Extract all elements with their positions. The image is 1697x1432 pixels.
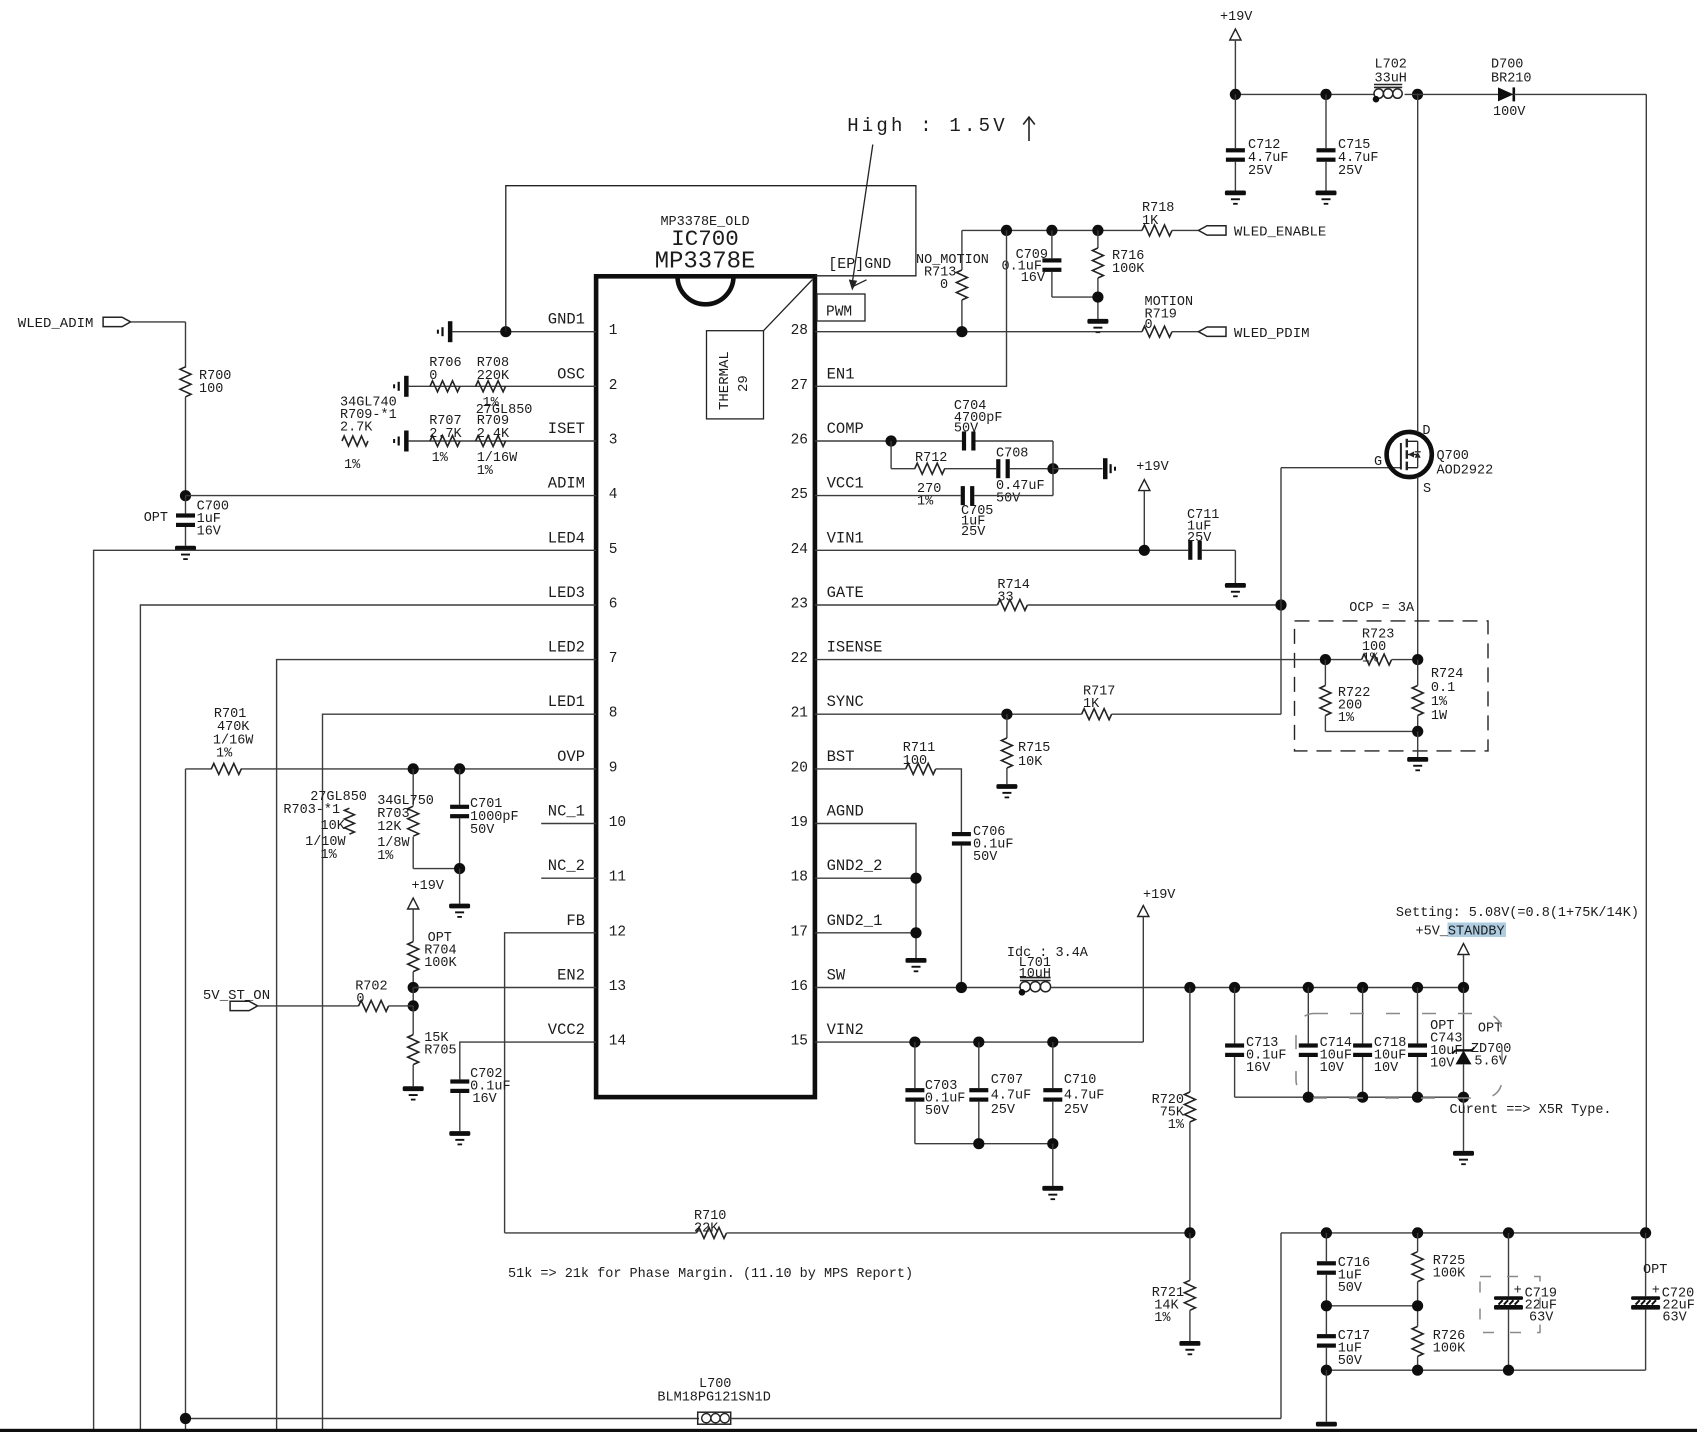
resistor R703 12K 1/8W 1% (34GL750) <box>377 769 434 869</box>
node OVP-R703 junction <box>408 763 419 774</box>
svg-text:18: 18 <box>791 870 808 886</box>
svg-text:7: 7 <box>609 651 618 667</box>
capacitor C743 10uF 10V OPT <box>1408 988 1463 1098</box>
svg-text:+: + <box>1652 1284 1660 1299</box>
wire LED4 pin 5 <box>94 550 596 1430</box>
svg-text:PWM: PWM <box>826 305 852 321</box>
svg-text:2.7K: 2.7K <box>340 421 373 436</box>
resistor R705 15K <box>408 1006 457 1086</box>
svg-text:4.7uF: 4.7uF <box>991 1089 1032 1104</box>
node C718 bottom <box>1357 1092 1368 1103</box>
node compensation right junction <box>1047 463 1058 474</box>
svg-text:SW: SW <box>827 967 846 985</box>
svg-text:C708: C708 <box>996 447 1028 462</box>
svg-text:33: 33 <box>997 591 1013 606</box>
svg-text:16V: 16V <box>197 525 222 540</box>
ground below AGND chain <box>906 958 927 963</box>
svg-text:NC_1: NC_1 <box>548 803 585 821</box>
svg-text:21: 21 <box>791 706 808 722</box>
svg-text:10V: 10V <box>1374 1061 1399 1076</box>
wire 5V_ST_ON to R702 <box>258 1005 359 1007</box>
wire to ground <box>459 869 461 904</box>
EP pad wire and [EP]GND outline <box>506 186 916 332</box>
svg-text:1%: 1% <box>321 848 338 863</box>
svg-text:NC_2: NC_2 <box>548 857 585 875</box>
node C717 bottom <box>1321 1365 1332 1376</box>
svg-text:29: 29 <box>736 375 752 392</box>
svg-text:22K: 22K <box>694 1222 719 1237</box>
svg-text:OCP = 3A: OCP = 3A <box>1349 601 1415 616</box>
thermal pad box THERMAL 29 <box>707 280 813 419</box>
svg-text:100V: 100V <box>1493 105 1526 120</box>
ground bar symbol at OSC network <box>404 376 409 397</box>
svg-text:14: 14 <box>609 1034 626 1050</box>
svg-text:COMP: COMP <box>827 420 864 438</box>
svg-text:16V: 16V <box>1246 1061 1271 1076</box>
capacitor C713 0.1uF 16V <box>1225 988 1286 1098</box>
node rail C715 <box>1320 89 1331 100</box>
pin stub NC_1 <box>541 823 596 825</box>
wire COMP branch down <box>890 441 892 469</box>
capacitor C707 4.7uF 25V <box>969 1042 1031 1144</box>
svg-text:0: 0 <box>940 278 948 293</box>
wire OSC row <box>409 385 596 387</box>
resistor R723 100 1% <box>1362 628 1395 667</box>
node rail C718 <box>1357 982 1368 993</box>
resistor R701 470K 1/16W 1% <box>211 707 254 774</box>
svg-text:51k => 21k for Phase Margin. (: 51k => 21k for Phase Margin. (11.10 by M… <box>508 1267 913 1282</box>
node ADIM junction <box>180 490 191 501</box>
wire to ground <box>1052 1144 1054 1186</box>
ground below R716 <box>1087 319 1108 324</box>
capacitor C703 0.1uF 50V <box>905 1042 965 1144</box>
svg-text:25V: 25V <box>1338 164 1363 179</box>
svg-text:C710: C710 <box>1064 1073 1096 1088</box>
ground below ZD700 <box>1453 1151 1474 1156</box>
electrolytic capacitor C720 22uF 63V OPT <box>1631 1233 1695 1370</box>
svg-text:LED1: LED1 <box>548 693 585 711</box>
wire gate to Q700 <box>1281 467 1401 469</box>
wire L700 row from OVP vertical <box>186 1418 700 1420</box>
svg-text:2.4K: 2.4K <box>477 427 510 442</box>
port 5V_ST_ON <box>203 988 270 1011</box>
wire output sense row <box>1281 1232 1646 1234</box>
wire R703 bottom to C701 bottom <box>413 868 459 870</box>
svg-text:100K: 100K <box>1433 1342 1466 1357</box>
node rail C713 <box>1229 982 1240 993</box>
svg-text:LED2: LED2 <box>548 639 585 657</box>
svg-text:GND2_2: GND2_2 <box>827 857 883 875</box>
svg-text:1%: 1% <box>432 451 449 466</box>
node ZD700 bottom <box>1458 1092 1469 1103</box>
wire WLED_ENABLE row <box>962 229 1142 231</box>
wire BST pin 20 <box>815 768 906 770</box>
wire R718 to port <box>1172 229 1199 231</box>
svg-text:23: 23 <box>791 597 808 613</box>
svg-text:1%: 1% <box>477 464 494 479</box>
resistor R708 220K 1% <box>476 356 533 418</box>
svg-text:1%: 1% <box>1431 695 1448 710</box>
wire OVP sense vertical to L700 row <box>185 769 187 1430</box>
svg-text:GND2_1: GND2_1 <box>827 912 883 930</box>
node SW C706 <box>956 982 967 993</box>
svg-text:1K: 1K <box>1083 697 1100 712</box>
svg-text:ADIM: ADIM <box>548 475 585 493</box>
svg-text:D: D <box>1422 424 1430 439</box>
wire R722 bottom to R724 bottom <box>1325 730 1417 732</box>
node 5V_ST_ON junction <box>408 1000 419 1011</box>
svg-text:BLM18PG121SN1D: BLM18PG121SN1D <box>657 1391 770 1406</box>
wire EN2 to 5V_ST_ON node <box>412 988 414 1006</box>
node row C716 <box>1321 1227 1332 1238</box>
svg-text:9: 9 <box>609 760 618 776</box>
wire C704 to right corner <box>976 440 1054 442</box>
node C710 bottom <box>1047 1138 1058 1149</box>
svg-text:10V: 10V <box>1430 1057 1455 1072</box>
resistor R710 22K <box>694 1209 727 1238</box>
wire R714 to gate node <box>1027 604 1281 606</box>
capacitor C700 1uF 16V (OPT) <box>144 496 229 546</box>
port WLED_ENABLE <box>1199 225 1327 241</box>
electrolytic capacitor C719 22uF 63V <box>1480 1233 1557 1370</box>
wire VIN1 pin 24 <box>815 549 1188 551</box>
svg-text:ISENSE: ISENSE <box>827 639 883 657</box>
svg-text:20: 20 <box>791 760 808 776</box>
wire ISENSE pin 22 <box>815 659 1362 661</box>
resistor R717 1K <box>1082 685 1116 720</box>
ground below C702 <box>449 1131 470 1136</box>
svg-text:1%: 1% <box>344 458 361 473</box>
wire ADIM pin 4 <box>186 495 597 497</box>
svg-text:100K: 100K <box>1433 1267 1466 1282</box>
svg-text:WLED_PDIM: WLED_PDIM <box>1234 326 1310 342</box>
svg-text:GATE: GATE <box>827 584 864 602</box>
port WLED_PDIM <box>1199 326 1310 342</box>
svg-text:High : 1.5V: High : 1.5V <box>847 115 1008 137</box>
node rail C712 <box>1230 89 1241 100</box>
svg-text:1K: 1K <box>1142 214 1159 229</box>
wire R723 to source node <box>1392 659 1418 661</box>
svg-text:1%: 1% <box>1154 1311 1171 1326</box>
svg-text:16: 16 <box>791 979 808 995</box>
svg-text:SYNC: SYNC <box>827 693 864 711</box>
svg-text:R715: R715 <box>1018 741 1050 756</box>
wire GND1 to bar <box>452 331 596 333</box>
node C743 bottom <box>1412 1092 1423 1103</box>
wire Q700 source down <box>1417 477 1419 660</box>
resistor R713 0 NO_MOTION <box>916 230 989 331</box>
wire LED1 pin 8 <box>323 714 597 1430</box>
svg-text:22: 22 <box>791 651 808 667</box>
wire COMP pin 26 <box>815 440 962 442</box>
ground below C701 <box>449 904 470 909</box>
wire D700 to right edge rail <box>1514 93 1647 95</box>
svg-text:10K: 10K <box>321 819 346 834</box>
wire EN1 pin 27 <box>815 230 1007 386</box>
node C709 top <box>1046 225 1057 236</box>
svg-text:EN1: EN1 <box>827 365 855 383</box>
resistor R704 100K OPT <box>408 931 458 988</box>
node AGND GND2_2 <box>910 873 921 884</box>
svg-text:27: 27 <box>791 378 808 394</box>
svg-text:1: 1 <box>609 323 618 339</box>
node row C719 <box>1503 1227 1514 1238</box>
wire GATE pin 23 <box>815 604 998 606</box>
svg-text:MP3378E: MP3378E <box>655 249 756 276</box>
power +19V top rail <box>1220 10 1253 94</box>
svg-text:50V: 50V <box>1338 1281 1363 1296</box>
node OVP/L700 junction <box>180 1413 191 1424</box>
capacitor C716 1uF 50V <box>1317 1233 1370 1306</box>
wire SW pin 16 <box>815 987 1020 989</box>
node OVP-C701 junction <box>454 763 465 774</box>
svg-text:C707: C707 <box>991 1073 1023 1088</box>
svg-text:1%: 1% <box>377 849 394 864</box>
wire WLED_ADIM to R700 <box>131 321 186 323</box>
net label +5V_STANDBY with highlight <box>1416 923 1507 940</box>
svg-text:16V: 16V <box>1021 271 1046 286</box>
svg-text:100K: 100K <box>424 956 457 971</box>
svg-text:25V: 25V <box>1187 531 1212 546</box>
svg-text:100: 100 <box>199 382 223 397</box>
node R703/C701 junction <box>454 863 465 874</box>
wire R710 FB row <box>505 1232 697 1234</box>
svg-text:+19V: +19V <box>1220 10 1253 25</box>
svg-text:+19V: +19V <box>1136 460 1169 475</box>
alternate resistor R703-*1 10K 1/10W 1% (27GL850) floating symbol <box>283 790 367 863</box>
svg-text:OVP: OVP <box>557 748 585 766</box>
svg-text:S: S <box>1423 482 1431 497</box>
capacitor C710 4.7uF 25V <box>1043 1042 1104 1144</box>
capacitor C705 1uF 25V <box>961 486 1053 540</box>
IC pin labels and numbers <box>548 311 883 1050</box>
svg-text:BST: BST <box>827 748 855 766</box>
svg-text:25V: 25V <box>991 1103 1016 1118</box>
port WLED_ADIM <box>18 316 131 332</box>
ground below input caps <box>1042 1186 1063 1191</box>
svg-text:R712: R712 <box>915 451 947 466</box>
resistor R724 0.1 1% 1W <box>1412 660 1463 732</box>
resistor R711 100 <box>903 741 936 774</box>
node source/R724 <box>1412 654 1423 665</box>
svg-text:G: G <box>1374 455 1382 470</box>
resistor R725 100K <box>1412 1233 1466 1306</box>
ground below C715 <box>1316 191 1337 196</box>
wire SYNC pin 21 <box>815 713 1082 715</box>
resistor R707 2.7K 1% <box>429 414 462 466</box>
capacitor C718 10uF 10V <box>1353 988 1406 1098</box>
svg-text:OPT: OPT <box>1478 1022 1502 1037</box>
wire GND2_2 pin 18 <box>815 877 916 879</box>
svg-text:17: 17 <box>791 924 808 940</box>
node rail R720 <box>1184 982 1195 993</box>
wire gate vertical <box>1280 468 1282 715</box>
dashed OPT group outline <box>1296 1014 1502 1099</box>
IC IC700 MP3378E body <box>596 276 815 1097</box>
node row C720 right rail <box>1640 1227 1651 1238</box>
svg-text:25V: 25V <box>961 525 986 540</box>
node R724 bottom <box>1412 726 1423 737</box>
inductor L702 33uH <box>1373 58 1407 103</box>
svg-text:10V: 10V <box>1320 1061 1345 1076</box>
resistor R726 100K <box>1412 1306 1466 1370</box>
node C716/C717 mid <box>1321 1300 1332 1311</box>
wire OVP row pin 9 <box>241 768 596 770</box>
svg-text:OSC: OSC <box>557 365 585 383</box>
node C714 bottom <box>1303 1092 1314 1103</box>
wire +19V rail <box>1235 93 1374 95</box>
power +19V above R704 <box>408 879 445 942</box>
node ISENSE R722 <box>1320 654 1331 665</box>
svg-text:R705: R705 <box>424 1044 456 1059</box>
svg-text:8: 8 <box>609 706 618 722</box>
node R726 bottom <box>1412 1365 1423 1376</box>
wire Q700 drain up <box>1417 94 1419 432</box>
svg-text:Setting: 5.08V(=0.8(1+75K/14K): Setting: 5.08V(=0.8(1+75K/14K) <box>1396 906 1639 921</box>
node rail C743 <box>1412 982 1423 993</box>
resistor R715 10K <box>1001 714 1050 784</box>
svg-text:63V: 63V <box>1662 1311 1687 1326</box>
ground below C711 <box>1225 583 1246 588</box>
resistor R716 100K <box>1092 230 1145 319</box>
IC700 title text <box>655 215 756 276</box>
svg-text:50V: 50V <box>996 492 1021 507</box>
svg-text:D700: D700 <box>1491 58 1523 73</box>
svg-text:+19V: +19V <box>1143 888 1176 903</box>
capacitor C711 1uF 25V <box>1187 508 1235 583</box>
svg-text:[EP]GND: [EP]GND <box>828 256 891 273</box>
node VIN2 C710 <box>1047 1037 1058 1048</box>
inductor L701 10uH Idc 3.4A <box>1007 946 1089 996</box>
svg-text:VCC2: VCC2 <box>548 1021 585 1039</box>
power +19V at VIN1 <box>1136 460 1169 550</box>
svg-text:220K: 220K <box>477 369 510 384</box>
wire L700 to output node <box>729 1418 1281 1420</box>
svg-text:0: 0 <box>429 369 437 384</box>
resistor R712 270 1% <box>891 451 947 510</box>
wire LED2 pin 7 <box>277 660 596 1430</box>
wire R717 to gate vertical <box>1112 713 1282 715</box>
wire R702 to junction <box>389 1005 414 1007</box>
capacitor C715 4.7uF 25V <box>1317 94 1379 190</box>
annotation High : 1.5V with arrow <box>847 115 1035 291</box>
svg-text:BR210: BR210 <box>1491 72 1532 87</box>
resistor R721 14K 1% <box>1152 1233 1196 1341</box>
svg-text:2.7K: 2.7K <box>429 427 462 442</box>
alternate resistor R709-*1 2.7K (34GL740) floating symbol <box>340 396 397 474</box>
wire AGND pin 19 <box>815 824 916 959</box>
ground bar symbol right of COMP network <box>1103 458 1108 479</box>
svg-text:2: 2 <box>609 378 618 394</box>
svg-text:ISET: ISET <box>548 420 585 438</box>
svg-text:10: 10 <box>609 815 626 831</box>
node EN2 junction <box>408 982 419 993</box>
svg-text:WLED_ENABLE: WLED_ENABLE <box>1234 225 1326 241</box>
svg-text:VCC1: VCC1 <box>827 475 864 493</box>
resistor R714 33 <box>997 578 1029 611</box>
pin 28 PWM box <box>817 294 865 321</box>
resistor R709 2.4K 1/16W 1% <box>476 414 519 479</box>
wire VCC1 pin 25 <box>815 495 961 497</box>
svg-text:R703-*1: R703-*1 <box>283 803 340 818</box>
resistor R719 0 MOTION <box>1142 295 1193 337</box>
svg-text:+: + <box>1514 1284 1522 1299</box>
svg-text:25: 25 <box>791 487 808 503</box>
svg-text:19: 19 <box>791 815 808 831</box>
wire GND2_1 pin 17 <box>815 932 916 934</box>
svg-text:15: 15 <box>791 1034 808 1050</box>
wire to ground <box>1463 1097 1465 1151</box>
node VIN2 C703 <box>909 1037 920 1048</box>
wire R719 to port <box>1172 331 1199 333</box>
capacitor C717 1uF 50V <box>1317 1306 1370 1370</box>
node GND1 junction <box>500 326 511 337</box>
ground below R724 <box>1407 757 1428 762</box>
wire PWM pin 28 row <box>815 331 1142 333</box>
svg-text:12K: 12K <box>377 820 402 835</box>
svg-text:THERMAL: THERMAL <box>717 351 733 410</box>
svg-text:28: 28 <box>791 323 808 339</box>
node COMP junction <box>886 435 897 446</box>
svg-text:13: 13 <box>609 979 626 995</box>
power +5V_STANDBY arrow <box>1458 944 1469 988</box>
svg-text:63V: 63V <box>1529 1311 1554 1326</box>
svg-text:GND1: GND1 <box>548 311 585 329</box>
ground bar symbol at GND1 pin <box>448 321 453 342</box>
wire output cap ground row <box>1235 1096 1464 1098</box>
node L702 out <box>1412 89 1423 100</box>
svg-text:LED4: LED4 <box>548 529 585 547</box>
node VIN1 +19V junction <box>1139 545 1150 556</box>
node C707 bottom <box>973 1138 984 1149</box>
node C709/R716 bottom <box>1092 292 1103 303</box>
svg-text:4: 4 <box>609 487 618 503</box>
svg-text:16V: 16V <box>472 1092 497 1107</box>
svg-text:VIN2: VIN2 <box>827 1021 864 1039</box>
resistor R722 200 1% <box>1320 660 1370 732</box>
svg-text:100K: 100K <box>1112 262 1145 277</box>
svg-text:1%: 1% <box>216 747 233 762</box>
svg-text:1%: 1% <box>917 495 934 510</box>
wire bottom edge net <box>0 1429 1697 1432</box>
wire L702 to D700 <box>1405 93 1498 95</box>
node SYNC R715 <box>1001 709 1012 720</box>
svg-text:50V: 50V <box>925 1104 950 1119</box>
wire FB pin 12 down to R710 row <box>505 933 596 1233</box>
ground below C700 <box>175 546 196 551</box>
capacitor C714 10uF 10V <box>1299 988 1352 1098</box>
ground below R705 <box>403 1086 424 1091</box>
svg-text:0.1: 0.1 <box>1431 681 1455 696</box>
svg-text:+19V: +19V <box>412 879 445 894</box>
resistor R700 100 <box>180 367 231 397</box>
ground below R715 <box>996 784 1017 789</box>
node row R725 <box>1412 1227 1423 1238</box>
svg-text:11: 11 <box>609 870 626 886</box>
svg-text:50V: 50V <box>470 823 495 838</box>
svg-text:6: 6 <box>609 597 618 613</box>
resistor R706 0 <box>429 356 461 392</box>
capacitor C712 4.7uF 25V <box>1226 94 1289 190</box>
node rail C714 <box>1303 982 1314 993</box>
svg-text:OPT: OPT <box>1643 1263 1667 1278</box>
wire EN2 pin 13 <box>413 987 596 989</box>
svg-text:Curent ==> X5R Type.: Curent ==> X5R Type. <box>1450 1103 1612 1118</box>
svg-text:1W: 1W <box>1431 709 1448 724</box>
diode D700 BR210 100V <box>1491 58 1532 121</box>
svg-text:1%: 1% <box>1168 1118 1185 1133</box>
svg-text:AGND: AGND <box>827 803 864 821</box>
